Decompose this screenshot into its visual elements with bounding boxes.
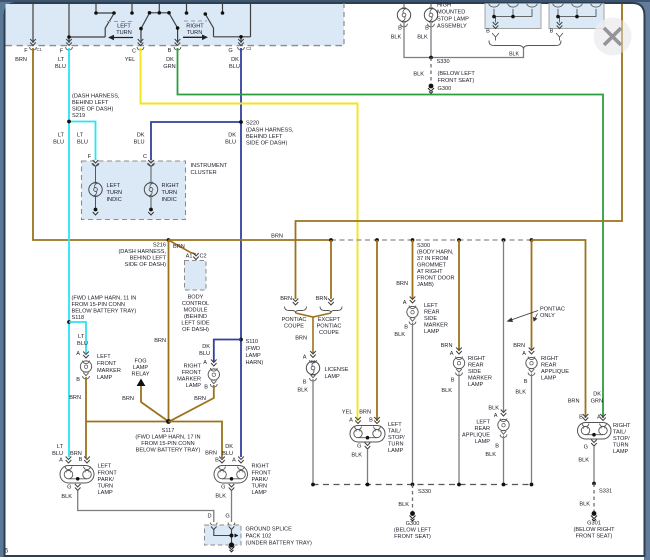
- wire BRN pin F to S216 bus: [33, 48, 169, 240]
- svg-text:LAMP: LAMP: [98, 490, 114, 496]
- svg-text:OF DASH): OF DASH): [182, 327, 209, 333]
- svg-text:REAR: REAR: [541, 363, 557, 369]
- svg-text:MARKER: MARKER: [424, 323, 448, 329]
- svg-text:C: C: [132, 49, 136, 55]
- svg-text:A: A: [450, 351, 454, 357]
- svg-text:G: G: [225, 514, 229, 520]
- svg-text:MARKER: MARKER: [468, 376, 492, 382]
- svg-text:BLU: BLU: [199, 351, 210, 357]
- svg-text:LAMP: LAMP: [613, 449, 629, 455]
- wire left-turn switch feed stub: [95, 3, 97, 13]
- right switch feed: [250, 3, 252, 37]
- svg-text:BLK: BLK: [215, 494, 226, 500]
- svg-text:BLU: BLU: [55, 64, 66, 70]
- svg-text:BRN: BRN: [359, 410, 371, 416]
- right rear applique lamp: [529, 348, 535, 355]
- svg-text:PARK/: PARK/: [252, 477, 269, 483]
- svg-text:HARN): HARN): [246, 360, 264, 366]
- brace pontiac coupe: [285, 307, 307, 314]
- svg-text:BLK: BLK: [413, 72, 424, 78]
- svg-text:LEFT: LEFT: [424, 303, 438, 309]
- svg-text:BEHIND LEFT: BEHIND LEFT: [246, 134, 283, 140]
- svg-text:FOG: FOG: [134, 359, 146, 365]
- left rear side marker lamp: [410, 297, 416, 304]
- svg-text:FRONT: FRONT: [252, 471, 272, 477]
- svg-text:GROUND SPLICE: GROUND SPLICE: [246, 527, 293, 533]
- svg-text:BRN: BRN: [205, 451, 217, 457]
- left front park/turn lamp: [66, 457, 72, 464]
- svg-text:LT: LT: [77, 133, 84, 139]
- svg-text:LEFT SIDE: LEFT SIDE: [181, 321, 209, 327]
- svg-text:BELOW BATTERY TRAY): BELOW BATTERY TRAY): [72, 309, 137, 315]
- svg-text:B: B: [215, 458, 219, 464]
- svg-text:LAMP: LAMP: [246, 353, 262, 359]
- tent feed stub: [158, 3, 160, 13]
- svg-text:A: A: [76, 351, 80, 357]
- svg-text:LAMP: LAMP: [133, 365, 149, 371]
- svg-text:BRN: BRN: [69, 395, 81, 401]
- svg-text:TURN: TURN: [162, 190, 178, 196]
- svg-text:ASSEMBLY: ASSEMBLY: [437, 24, 467, 30]
- svg-text:BRN: BRN: [295, 336, 307, 342]
- svg-text:(BELOW LEFT: (BELOW LEFT: [394, 528, 432, 534]
- svg-text:FRONT: FRONT: [97, 361, 117, 367]
- svg-text:MARKER: MARKER: [177, 377, 201, 383]
- svg-text:REAR: REAR: [474, 426, 490, 432]
- pin C YEL: [138, 39, 144, 46]
- wire BLK left rear applique to bottom bus: [503, 436, 505, 485]
- svg-text:B: B: [550, 29, 554, 35]
- svg-text:STOP LAMP: STOP LAMP: [437, 17, 469, 23]
- wire BLK license lamp to bottom bus: [312, 379, 314, 485]
- svg-text:A: A: [403, 300, 407, 306]
- right tail/stop/turn lamp: [583, 414, 589, 421]
- splice S110 on DK BLU: [239, 338, 243, 342]
- svg-text:(FWD LAMP HARN, 11 IN: (FWD LAMP HARN, 11 IN: [72, 296, 137, 302]
- ground splice pack 102 box: [205, 525, 242, 545]
- svg-text:BLK: BLK: [351, 453, 362, 459]
- ground G301 (below right front seat): [592, 511, 597, 516]
- high mounted stop lamp bulb 1: [403, 3, 405, 9]
- svg-text:BEHIND LEFT: BEHIND LEFT: [72, 100, 109, 106]
- svg-text:LEFT: LEFT: [98, 464, 112, 470]
- right rear side marker lamp: [456, 348, 462, 355]
- svg-text:BLK: BLK: [485, 452, 496, 458]
- svg-text:TURN: TURN: [388, 442, 404, 448]
- splice S331: [592, 482, 596, 486]
- stub unconnected: [131, 3, 133, 13]
- svg-text:BODY: BODY: [188, 295, 204, 301]
- svg-text:BRN: BRN: [154, 338, 166, 344]
- svg-text:STOP/: STOP/: [613, 436, 630, 442]
- switch arm to pin C: [141, 13, 150, 43]
- svg-text:F: F: [24, 48, 28, 54]
- ground at splice pack: [229, 542, 234, 547]
- splice dots on bus: [329, 238, 333, 242]
- left tail lamp assembly box (shaded): [485, 4, 541, 29]
- svg-text:G: G: [228, 48, 232, 54]
- svg-text:BLK: BLK: [61, 494, 72, 500]
- svg-text:COUPE: COUPE: [284, 324, 304, 330]
- pin B left assembly: [493, 22, 499, 29]
- svg-text:COUPE: COUPE: [319, 330, 339, 336]
- svg-text:BRN: BRN: [280, 296, 292, 302]
- svg-text:LAMP: LAMP: [325, 374, 341, 380]
- splice S216 on BRN bus: [167, 238, 171, 242]
- svg-text:BLK: BLK: [417, 35, 428, 41]
- dashed right edge of switch region: [343, 3, 345, 46]
- wire BRN drop to left tail lamp B: [376, 240, 378, 421]
- svg-text:BRN: BRN: [15, 57, 27, 63]
- svg-text:LAMP: LAMP: [541, 376, 557, 382]
- wire BLK right rear side marker to bottom bus: [458, 374, 460, 485]
- svg-text:FRONT SEAT): FRONT SEAT): [394, 534, 431, 540]
- switch arm to pin B: [169, 13, 178, 43]
- svg-text:FROM 15-PIN CONN: FROM 15-PIN CONN: [141, 441, 194, 447]
- svg-text:C2: C2: [246, 46, 252, 51]
- svg-text:FRONT DOOR: FRONT DOOR: [417, 276, 455, 282]
- brace joining both assemblies BLK: [489, 41, 561, 49]
- bottom BLK ground bus (dashed): [313, 484, 532, 486]
- wire BRN drop to right rear applique lamp: [531, 240, 533, 350]
- wire YEL pin C to left tail lamp A: [141, 48, 358, 421]
- svg-text:BLU: BLU: [53, 140, 64, 146]
- svg-text:S330: S330: [437, 59, 450, 65]
- svg-text:DK: DK: [593, 392, 601, 398]
- svg-text:DK: DK: [231, 57, 239, 63]
- svg-text:BLK: BLK: [579, 502, 590, 508]
- svg-text:(FWD: (FWD: [246, 346, 261, 352]
- svg-text:PACK 102: PACK 102: [246, 534, 272, 540]
- wire BRN drop to left rear side marker: [412, 240, 414, 299]
- svg-text:(BELOW RIGHT: (BELOW RIGHT: [573, 527, 615, 533]
- svg-text:S219: S219: [72, 113, 85, 119]
- ground G300 (below left front seat): [410, 511, 415, 516]
- connector C1 boundary dashed line: [6, 45, 345, 47]
- splice S220: [239, 120, 243, 124]
- svg-text:APPLIQUE: APPLIQUE: [541, 369, 569, 375]
- svg-text:RIGHT: RIGHT: [252, 464, 270, 470]
- svg-text:G300: G300: [438, 86, 452, 92]
- wire BRN S117 to right park lamp B: [169, 422, 223, 459]
- wire switch output to F2: [69, 36, 105, 38]
- svg-text:(DASH HARNESS,: (DASH HARNESS,: [246, 128, 294, 134]
- svg-text:INDIC: INDIC: [162, 197, 177, 203]
- svg-text:B: B: [369, 418, 373, 424]
- svg-text:A: A: [59, 458, 63, 464]
- svg-text:LT: LT: [58, 133, 65, 139]
- svg-text:S117: S117: [162, 428, 175, 434]
- left rear applique lamp: [501, 410, 507, 417]
- internal bus: [494, 17, 532, 23]
- svg-text:SIDE OF DASH): SIDE OF DASH): [125, 262, 166, 268]
- svg-text:BELOW BATTERY TRAY): BELOW BATTERY TRAY): [136, 448, 201, 454]
- svg-text:(DASH HARNESS,: (DASH HARNESS,: [118, 249, 166, 255]
- svg-text:MODULE: MODULE: [184, 308, 208, 314]
- right tail lamp assembly box (shaded): [549, 4, 604, 29]
- svg-text:FRONT SEAT): FRONT SEAT): [438, 78, 475, 84]
- svg-text:B: B: [168, 48, 172, 54]
- svg-text:INSTRUMENT: INSTRUMENT: [191, 163, 228, 169]
- svg-text:37 IN FROM: 37 IN FROM: [417, 256, 449, 262]
- wire BLK right tail G to S331: [593, 446, 595, 484]
- svg-text:PONTIAC: PONTIAC: [540, 307, 565, 313]
- svg-text:BLU: BLU: [77, 140, 88, 146]
- wire BRN merge to license lamp: [296, 313, 332, 353]
- right front marker lamp: [211, 360, 217, 367]
- svg-text:AT RIGHT: AT RIGHT: [417, 269, 443, 275]
- left turn indicator lamp: [95, 167, 97, 184]
- svg-text:BLU: BLU: [222, 451, 233, 457]
- svg-text:MOUNTED: MOUNTED: [437, 10, 465, 16]
- svg-text:A: A: [349, 418, 353, 424]
- svg-text:RIGHT: RIGHT: [162, 183, 180, 189]
- svg-text:LEFT: LEFT: [107, 183, 121, 189]
- svg-text:B: B: [524, 379, 528, 385]
- wire BRN drop to EXCEPT PONTIAC COUPE: [330, 240, 332, 299]
- tent bar: [150, 12, 170, 14]
- wire BRN right feed (from top, behind close button): [296, 4, 623, 299]
- svg-text:A: A: [522, 351, 526, 357]
- splice S118 on LT BLU: [67, 320, 71, 324]
- svg-text:B: B: [486, 29, 490, 35]
- svg-text:TAIL/: TAIL/: [613, 430, 626, 436]
- svg-text:LEFT: LEFT: [117, 24, 131, 30]
- svg-text:HIGH: HIGH: [437, 3, 451, 9]
- svg-text:BLK: BLK: [391, 35, 402, 41]
- wire BRN bus dashed section S216 to right lamps: [331, 239, 532, 241]
- wire BLK left park lamp G to splice pack D: [78, 491, 214, 523]
- svg-text:A: A: [303, 355, 307, 361]
- svg-text:F: F: [88, 154, 92, 160]
- svg-text:SIDE: SIDE: [424, 316, 437, 322]
- svg-text:S300: S300: [417, 243, 430, 249]
- svg-text:LEFT: LEFT: [97, 354, 111, 360]
- svg-text:DK: DK: [137, 133, 145, 139]
- wire DK GRN pin B to right tail lamp A: [178, 48, 604, 418]
- junction dots top section: [67, 11, 243, 39]
- svg-text:BLK: BLK: [509, 52, 519, 58]
- svg-text:DK: DK: [225, 444, 233, 450]
- svg-text:S110: S110: [246, 339, 259, 345]
- assembly bulbs (cut off at top): [489, 4, 500, 17]
- svg-text:TURN: TURN: [107, 190, 123, 196]
- svg-text:TURN: TURN: [98, 484, 114, 490]
- splice S219: [67, 120, 71, 124]
- svg-text:RIGHT: RIGHT: [186, 24, 204, 30]
- stub unconnected: [186, 3, 188, 13]
- wire DK BLU branch S220 to cluster pin C: [151, 122, 241, 160]
- svg-text:(FWD LAMP HARN, 17 IN: (FWD LAMP HARN, 17 IN: [135, 435, 200, 441]
- wire BLK dashed to G300: [430, 58, 432, 84]
- svg-text:LICENSE: LICENSE: [325, 367, 349, 373]
- license lamp: [310, 351, 316, 358]
- svg-text:BLU: BLU: [77, 341, 88, 347]
- svg-text:LAMP: LAMP: [388, 448, 404, 454]
- svg-text:FRONT: FRONT: [182, 370, 202, 376]
- wire F1 feed (to pin F C1): [32, 3, 34, 43]
- svg-text:ONLY: ONLY: [540, 313, 555, 319]
- svg-text:BRN: BRN: [194, 396, 206, 402]
- svg-text:BLU: BLU: [134, 140, 145, 146]
- switch arm right-turn (open): [205, 14, 213, 37]
- wire BRN S216 down to S117: [168, 240, 170, 422]
- svg-text:DK: DK: [166, 57, 174, 63]
- wire BRN bus to right tail lamp B: [532, 240, 586, 418]
- svg-text:A: A: [232, 458, 236, 464]
- svg-text:B: B: [303, 380, 307, 386]
- svg-text:LEFT: LEFT: [476, 420, 490, 426]
- svg-text:PARK/: PARK/: [98, 477, 115, 483]
- svg-text:BLK: BLK: [488, 406, 499, 412]
- wire DK BLU pin G to S220 to S110 to right park lamp A: [240, 48, 242, 457]
- svg-text:6: 6: [5, 548, 9, 555]
- svg-text:PONTIAC: PONTIAC: [317, 324, 342, 330]
- svg-text:BRN: BRN: [513, 343, 525, 349]
- svg-text:BLK: BLK: [398, 502, 409, 508]
- svg-text:BRN: BRN: [441, 343, 453, 349]
- svg-text:S216: S216: [153, 243, 166, 249]
- svg-text:CONTROL: CONTROL: [182, 301, 209, 307]
- svg-text:BLU: BLU: [229, 64, 240, 70]
- right turn indicator lamp: [150, 167, 152, 184]
- svg-text:B: B: [204, 385, 208, 391]
- cluster pin F: [93, 160, 99, 167]
- svg-text:LAMP: LAMP: [468, 382, 484, 388]
- wire BRN drop to right rear side marker: [458, 240, 460, 350]
- instrument cluster box: [82, 161, 186, 220]
- svg-text:TURN: TURN: [116, 30, 132, 36]
- svg-text:B: B: [451, 378, 455, 384]
- wire BLK left tail G to bottom bus: [367, 449, 369, 485]
- svg-text:BLK: BLK: [297, 388, 308, 394]
- svg-text:SIDE OF DASH): SIDE OF DASH): [246, 141, 287, 147]
- switch arm left-turn: [105, 14, 114, 38]
- wire BLK drop to left rear applique lamp: [503, 240, 505, 412]
- svg-text:TAIL/: TAIL/: [388, 429, 401, 435]
- svg-text:S220: S220: [246, 121, 259, 127]
- svg-text:RIGHT: RIGHT: [613, 423, 631, 429]
- close button: [594, 18, 632, 56]
- svg-text:RIGHT: RIGHT: [184, 364, 202, 370]
- svg-text:BLU: BLU: [52, 451, 63, 457]
- stub unconnected: [222, 3, 224, 13]
- svg-text:RELAY: RELAY: [132, 372, 150, 378]
- svg-text:A: A: [494, 413, 498, 419]
- wire LT BLU branch S219 to cluster pin F: [69, 122, 96, 161]
- svg-text:G300: G300: [406, 521, 420, 527]
- svg-text:G: G: [584, 445, 588, 451]
- svg-text:LT: LT: [57, 444, 64, 450]
- svg-text:C1: C1: [37, 47, 43, 52]
- body control module box: [185, 261, 207, 291]
- svg-text:LT: LT: [78, 334, 85, 340]
- svg-text:INDIC: INDIC: [107, 197, 122, 203]
- svg-text:BRN: BRN: [396, 281, 408, 287]
- wire LT BLU S118 to left front marker A: [69, 322, 86, 353]
- wire BRN branch to S117: [86, 421, 169, 423]
- wire BRN fog lamp relay to S117: [141, 386, 169, 422]
- svg-text:DK: DK: [202, 344, 210, 350]
- wire BLK left rear side marker to S330: [412, 323, 414, 485]
- svg-text:S331: S331: [599, 489, 612, 495]
- pin G DK BLU: [238, 39, 244, 46]
- svg-text:EXCEPT: EXCEPT: [318, 317, 341, 323]
- right front park/turn lamp: [219, 457, 225, 464]
- LEFT TURN label + arrow: [107, 21, 133, 23]
- svg-text:GROMMET: GROMMET: [417, 263, 447, 269]
- wire BRN bus S216 to S300 dashed section start: [169, 239, 332, 241]
- svg-text:REAR: REAR: [468, 363, 484, 369]
- svg-text:PONTIAC: PONTIAC: [282, 317, 307, 323]
- svg-text:RIGHT: RIGHT: [541, 356, 559, 362]
- svg-text:BRN: BRN: [271, 234, 283, 240]
- svg-text:B: B: [579, 415, 583, 421]
- pin F LT BLU: [66, 39, 72, 46]
- svg-text:(UNDER BATTERY TRAY): (UNDER BATTERY TRAY): [246, 541, 312, 547]
- brace except pontiac coupe: [320, 307, 342, 314]
- wire F2 feed: [68, 3, 70, 43]
- svg-text:GRN: GRN: [163, 64, 175, 70]
- svg-text:(BELOW LEFT: (BELOW LEFT: [438, 71, 476, 77]
- svg-text:LEFT: LEFT: [388, 422, 402, 428]
- wire BRN S216 to BCM pin A1: [169, 240, 197, 254]
- high mounted stop lamp bulb 2: [430, 3, 432, 9]
- svg-text:LAMP: LAMP: [186, 383, 202, 389]
- svg-text:G: G: [221, 485, 225, 491]
- svg-text:REAR: REAR: [424, 310, 440, 316]
- svg-text:TURN: TURN: [187, 30, 203, 36]
- svg-text:(DASH HARNESS,: (DASH HARNESS,: [72, 94, 120, 100]
- svg-text:DK: DK: [228, 133, 236, 139]
- wire to pin G: [240, 37, 242, 43]
- svg-text:C2: C2: [200, 254, 207, 260]
- svg-text:BRN: BRN: [122, 396, 134, 402]
- connector area shading (turn signal switch region): [6, 4, 345, 46]
- ground G300 (below left front seat): [429, 84, 434, 89]
- svg-text:STOP/: STOP/: [388, 435, 405, 441]
- svg-text:FROM 15-PIN CONN: FROM 15-PIN CONN: [72, 302, 125, 308]
- svg-text:B: B: [404, 325, 408, 331]
- svg-text:B: B: [79, 457, 83, 463]
- svg-text:(BEHIND: (BEHIND: [184, 314, 207, 320]
- svg-text:LAMP: LAMP: [424, 329, 440, 335]
- svg-text:BEHIND LEFT: BEHIND LEFT: [130, 256, 167, 262]
- RIGHT TURN label + arrow: [184, 20, 207, 22]
- svg-text:LAMP: LAMP: [97, 375, 113, 381]
- svg-text:S118: S118: [72, 315, 85, 321]
- pin B right assembly: [557, 22, 563, 29]
- left front marker lamp: [83, 352, 89, 359]
- svg-text:B: B: [76, 377, 80, 383]
- svg-text:FRONT SEAT): FRONT SEAT): [576, 534, 613, 540]
- svg-text:FRONT: FRONT: [98, 471, 118, 477]
- svg-text:G301: G301: [587, 521, 601, 527]
- pontiac coupe brace arrows: [293, 299, 299, 306]
- left tail/stop/turn lamp: [355, 417, 361, 424]
- wire DK BLU S110 to right front marker A: [214, 340, 241, 363]
- svg-text:YEL: YEL: [125, 57, 136, 63]
- splice pack internal wires: [214, 530, 232, 536]
- svg-text:LT: LT: [58, 57, 65, 63]
- svg-text:BLK: BLK: [578, 458, 589, 464]
- svg-text:TURN: TURN: [613, 443, 629, 449]
- cluster pin C: [148, 160, 154, 167]
- svg-text:F: F: [60, 49, 64, 55]
- svg-text:RIGHT: RIGHT: [468, 356, 486, 362]
- svg-text:A1: A1: [186, 254, 193, 260]
- svg-text:(BODY HARN,: (BODY HARN,: [417, 250, 454, 256]
